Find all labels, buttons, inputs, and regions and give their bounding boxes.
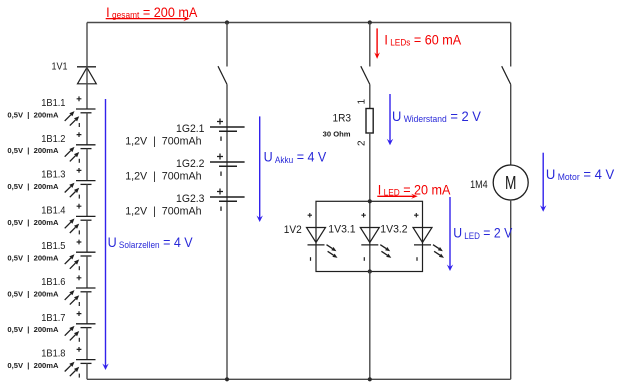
svg-text:1B1.8: 1B1.8	[41, 348, 65, 359]
svg-text:1,2V | 700mAh: 1,2V | 700mAh	[125, 135, 201, 147]
svg-text:U Motor = 4 V: U Motor = 4 V	[546, 167, 614, 183]
svg-text:1B1.6: 1B1.6	[41, 277, 65, 288]
svg-text:1R3: 1R3	[332, 112, 351, 124]
svg-text:M: M	[505, 173, 516, 193]
svg-text:2: 2	[356, 140, 367, 146]
svg-text:1B1.2: 1B1.2	[41, 134, 65, 145]
svg-text:30 Ohm: 30 Ohm	[323, 129, 351, 138]
svg-text:0,5V | 200mA: 0,5V | 200mA	[7, 361, 59, 370]
svg-text:1: 1	[356, 99, 367, 105]
svg-text:0,5V | 200mA: 0,5V | 200mA	[7, 289, 59, 298]
svg-text:U Akku = 4 V: U Akku = 4 V	[264, 149, 327, 165]
svg-text:1V2: 1V2	[284, 224, 302, 236]
svg-text:1B1.7: 1B1.7	[41, 313, 65, 324]
svg-text:1G2.2: 1G2.2	[176, 158, 204, 170]
svg-text:1G2.3: 1G2.3	[176, 193, 204, 205]
svg-text:1G2.1: 1G2.1	[176, 123, 204, 135]
svg-text:U LED = 2 V: U LED = 2 V	[453, 225, 512, 241]
svg-text:0,5V | 200mA: 0,5V | 200mA	[7, 325, 59, 334]
svg-text:1M4: 1M4	[470, 179, 488, 191]
svg-text:1,2V | 700mAh: 1,2V | 700mAh	[125, 170, 201, 182]
svg-text:U Widerstand = 2 V: U Widerstand = 2 V	[392, 108, 481, 124]
svg-text:1B1.3: 1B1.3	[41, 169, 65, 180]
svg-text:1B1.1: 1B1.1	[41, 98, 65, 109]
svg-text:I gesamt = 200 mA: I gesamt = 200 mA	[106, 4, 197, 20]
svg-text:0,5V | 200mA: 0,5V | 200mA	[7, 218, 59, 227]
svg-text:U Solarzellen = 4 V: U Solarzellen = 4 V	[108, 234, 193, 250]
svg-text:1B1.4: 1B1.4	[41, 205, 66, 216]
svg-text:0,5V | 200mA: 0,5V | 200mA	[7, 254, 59, 263]
svg-text:1,2V | 700mAh: 1,2V | 700mAh	[125, 205, 201, 217]
svg-text:1V3.2: 1V3.2	[380, 223, 407, 235]
svg-text:I LEDs = 60 mA: I LEDs = 60 mA	[384, 32, 461, 48]
svg-text:0,5V | 200mA: 0,5V | 200mA	[7, 110, 59, 119]
svg-text:0,5V | 200mA: 0,5V | 200mA	[7, 146, 59, 155]
svg-text:1B1.5: 1B1.5	[41, 241, 65, 252]
svg-text:1V1: 1V1	[52, 61, 68, 73]
svg-text:0,5V | 200mA: 0,5V | 200mA	[7, 182, 59, 191]
svg-text:1V3.1: 1V3.1	[328, 223, 355, 235]
